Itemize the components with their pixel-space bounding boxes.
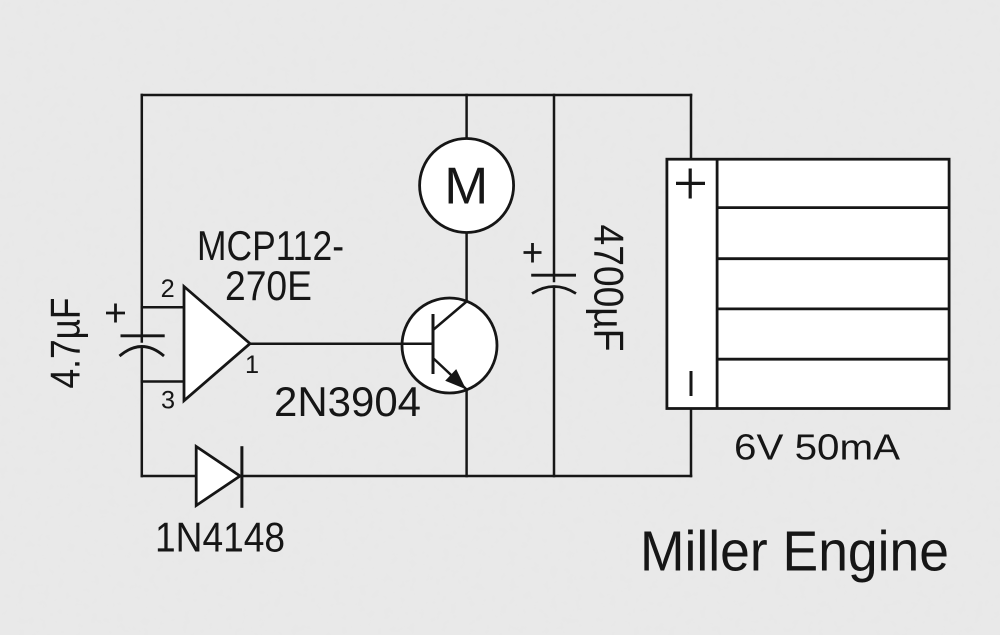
Q1 emitter line — [433, 358, 467, 390]
battery cell line 3 — [717, 307, 949, 310]
svg-text:2: 2 — [161, 275, 175, 303]
C1 plus sign — [106, 304, 125, 323]
motor M1 circle — [420, 139, 514, 233]
battery BT1 outline — [667, 159, 949, 408]
battery cell line 1 — [717, 206, 949, 209]
svg-text:1: 1 — [245, 351, 259, 379]
svg-text:1N4148: 1N4148 — [155, 514, 285, 561]
wire battery bottom — [690, 409, 693, 477]
battery minus terminal — [690, 371, 693, 396]
svg-text:270E: 270E — [225, 262, 312, 309]
Q1 emitter arrowhead — [445, 369, 466, 389]
Q1 base bar — [432, 314, 435, 374]
battery plus terminal — [676, 169, 705, 199]
wire bottom rail — [142, 475, 691, 478]
battery cell line 4 — [717, 358, 949, 361]
svg-text:2N3904: 2N3904 — [274, 378, 421, 425]
battery inner divider — [716, 159, 719, 408]
D1 cathode bar — [240, 446, 243, 508]
wire battery top — [690, 95, 693, 159]
svg-text:4.7µF: 4.7µF — [42, 298, 89, 389]
wire C2 top — [553, 95, 556, 281]
svg-text:4700µF: 4700µF — [586, 225, 633, 352]
diode D1 1N4148 — [196, 447, 240, 506]
svg-text:M: M — [444, 157, 488, 215]
capacitor C1 4.7uF — [120, 336, 165, 356]
wire left rail lower — [141, 347, 144, 476]
wire motor to transistor — [465, 232, 468, 301]
wire top rail — [142, 94, 691, 97]
svg-text:3: 3 — [161, 387, 175, 415]
wire U1 pin 3 — [142, 380, 184, 383]
Q1 collector line — [433, 302, 467, 331]
wire transistor emitter down — [465, 390, 468, 477]
C2 plus sign — [524, 243, 542, 263]
svg-text:6V 50mA: 6V 50mA — [734, 427, 901, 468]
svg-text:Miller Engine: Miller Engine — [640, 520, 949, 583]
capacitor C2 4700uF — [531, 275, 576, 293]
transistor Q1 circle — [402, 298, 497, 393]
wire C2 bottom — [553, 287, 556, 476]
wire U1 output to Q1 base — [250, 343, 433, 346]
wire left rail upper — [141, 95, 144, 342]
op-amp U1 MCP112 triangle — [184, 287, 250, 401]
battery cell line 2 — [717, 257, 949, 260]
wire U1 pin 2 — [142, 306, 184, 309]
wire motor top — [465, 95, 468, 139]
